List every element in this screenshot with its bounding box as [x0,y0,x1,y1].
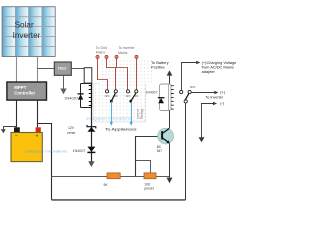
MPPT controller U2 [7,82,47,100]
svg-text:9K: 9K [104,183,109,187]
emitter wire with arrow [167,144,173,184]
relay board (perfboard) [93,84,146,122]
svg-text:swagatam innovations: swagatam innovations [25,149,68,154]
label To Inverter Mains [118,46,135,55]
wire 7812 output to relay coil [71,68,84,70]
red mains wires [98,58,137,90]
arrow To Battery Positive [151,60,172,84]
svg-text:1N4007: 1N4007 [73,149,86,153]
wire divider junction to transistor base [136,137,162,177]
svg-text:Solar: Solar [15,21,34,30]
zener 12V [67,125,96,135]
contact labels [105,94,139,98]
relay board upper area [100,58,153,84]
relay RL1 flyback diode 1N4007 [64,84,91,108]
svg-text:To Inverter: To Inverter [205,96,224,100]
svg-text:12V: 12V [68,126,75,130]
bottom wire to emitter [52,176,170,178]
wire MPPT to battery negative [16,100,18,127]
relay contact N/C 1 [114,90,117,93]
wire to 7812 input [38,68,55,70]
node To Grid Mains terminal 1 [96,55,99,58]
charging input wire [182,61,201,91]
resistor 9K [104,173,121,187]
svg-text:Relay: Relay [140,108,144,119]
solar panel PV1 [2,7,55,57]
right switch contacts [180,90,183,93]
svg-text:To Appliances: To Appliances [105,128,137,132]
relay contact N/C 2 [135,90,138,93]
blue wire to appliances 1 [110,101,113,126]
svg-text:1N4007: 1N4007 [146,91,158,95]
relay pole 2 [129,93,135,102]
relay pole 1 [110,93,116,102]
preset 10K [136,161,157,191]
node To Inverter Mains terminal 2 [135,55,138,58]
arrow to negative below chain [88,161,94,167]
svg-text:Inverter: Inverter [13,31,41,40]
wire battery positive to bottom rail [38,124,52,200]
svg-text:To Inverter: To Inverter [118,46,135,50]
node To Inverter Mains terminal 1 [115,55,118,58]
svg-text:Controller: Controller [14,91,35,96]
svg-text:swagatam innovations: swagatam innovations [86,116,131,121]
relay contact N/O 1 [105,90,108,93]
label To Grid Mains [96,46,107,55]
wire MPPT to battery positive [37,100,39,127]
svg-text:Mains: Mains [118,51,128,55]
svg-text:–: – [15,133,18,138]
svg-text:N/O: N/O [105,94,110,98]
relay RL2 box [160,84,174,111]
transistor Q1 BC547 [157,128,174,153]
wire solar right output [37,57,39,83]
relay RL1 coil [89,84,92,108]
svg-text:N/O: N/O [190,85,196,89]
svg-text:Positive: Positive [151,65,165,70]
svg-text:adapter: adapter [202,69,216,74]
svg-text:preset: preset [144,186,153,190]
relay RL1 coil body [84,68,92,83]
right switch lever [185,93,189,100]
svg-text:(+): (+) [220,91,225,95]
svg-text:Mains: Mains [96,51,106,55]
regulator 7812 [54,62,71,75]
wire collector to relay RL2 [169,111,171,129]
ground branch from battery negative [1,127,17,134]
inverter minus connector [199,102,225,143]
svg-text:zener: zener [67,131,76,135]
node To Grid Mains terminal 2 [105,55,108,58]
battery 12V [11,127,42,161]
blue wire to appliances 2 [130,101,133,126]
bottom rail wire [52,199,186,201]
svg-text:1N4007: 1N4007 [64,96,78,100]
zener chain wire [91,107,93,162]
ground arrow below 7812 [60,75,66,94]
wire pole to bottom rail [185,103,187,200]
wire N/O to inverter plus [191,91,226,95]
relay contact N/O 2 [126,90,129,93]
svg-text:547: 547 [157,149,163,153]
relay RL2 flyback diode 1N4007 [146,91,165,104]
label DPDT Relay [136,108,144,119]
svg-text:7812: 7812 [57,66,67,71]
svg-text:N/O: N/O [126,94,131,98]
label charging voltage [202,60,237,74]
svg-text:To Grid: To Grid [96,46,107,50]
svg-text:MPPT: MPPT [14,85,27,90]
svg-text:+: + [36,133,39,138]
diode 1N4007 chain [73,147,96,154]
wire solar left output [16,57,18,83]
